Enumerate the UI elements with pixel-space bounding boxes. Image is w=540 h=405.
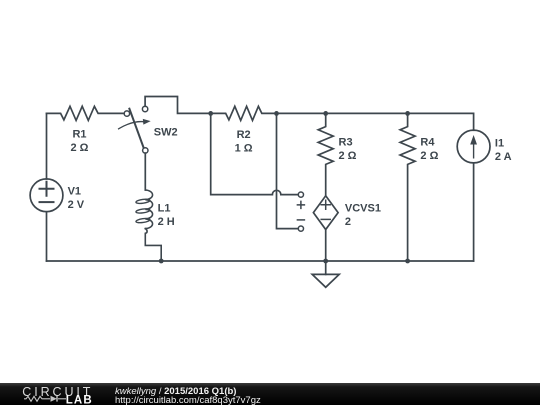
svg-text:R1: R1 bbox=[72, 128, 86, 140]
dependent source VCVS1 bbox=[313, 196, 381, 261]
resistor R2 bbox=[211, 106, 277, 154]
svg-text:I1: I1 bbox=[495, 138, 504, 150]
node C junction dot (R3 top) bbox=[323, 111, 328, 116]
node A junction dot bbox=[208, 111, 213, 116]
svg-text:2 Ω: 2 Ω bbox=[339, 150, 357, 162]
svg-text:R2: R2 bbox=[237, 129, 251, 141]
svg-text:2 V: 2 V bbox=[68, 199, 85, 211]
node G junction dot (R4 bottom on rail) bbox=[405, 259, 410, 264]
current source I1 bbox=[457, 130, 511, 163]
wire SW2 top throw to node A bbox=[145, 97, 208, 114]
node F junction dot (ground node on rail) bbox=[323, 259, 328, 264]
svg-text:R4: R4 bbox=[420, 137, 435, 149]
resistor R3 bbox=[318, 113, 356, 195]
switch SW2 bbox=[119, 106, 178, 153]
wire top rail (node B to I1 corner) bbox=[277, 113, 474, 130]
node E junction dot (L1 bottom on rail) bbox=[159, 259, 164, 264]
svg-text:2 A: 2 A bbox=[495, 151, 512, 163]
wire VCVS1 minus control (node B down to terminal) bbox=[277, 113, 305, 231]
node B junction dot bbox=[274, 111, 279, 116]
svg-text:1 Ω: 1 Ω bbox=[235, 143, 253, 155]
footer bar bbox=[0, 383, 540, 405]
svg-text:LAB: LAB bbox=[66, 395, 93, 405]
wire left rail top (V1 to R1) bbox=[46, 113, 48, 179]
wire VCVS1 plus control (node A down, hop, to terminal) bbox=[211, 113, 305, 208]
wire V1 bottom to rail bbox=[46, 212, 48, 261]
svg-text:L1: L1 bbox=[158, 203, 171, 215]
svg-text:V1: V1 bbox=[68, 186, 81, 198]
wire I1 bottom to rail bbox=[473, 163, 475, 261]
svg-text:R3: R3 bbox=[339, 137, 353, 149]
credit text bbox=[115, 386, 236, 397]
voltage source V1 bbox=[30, 179, 85, 212]
wire bottom rail bbox=[47, 260, 474, 262]
svg-text:2 H: 2 H bbox=[158, 216, 175, 228]
svg-text:SW2: SW2 bbox=[154, 126, 178, 138]
CircuitLab logo bbox=[0, 383, 110, 405]
svg-text:VCVS1: VCVS1 bbox=[345, 202, 381, 214]
resistor R1 bbox=[47, 106, 125, 154]
resistor R4 bbox=[400, 113, 438, 261]
ground bbox=[312, 261, 339, 287]
svg-text:2 Ω: 2 Ω bbox=[420, 150, 438, 162]
svg-text:2: 2 bbox=[345, 216, 351, 228]
node D junction dot (R4 top) bbox=[405, 111, 410, 116]
inductor L1 bbox=[136, 153, 175, 261]
svg-text:2 Ω: 2 Ω bbox=[71, 142, 89, 154]
